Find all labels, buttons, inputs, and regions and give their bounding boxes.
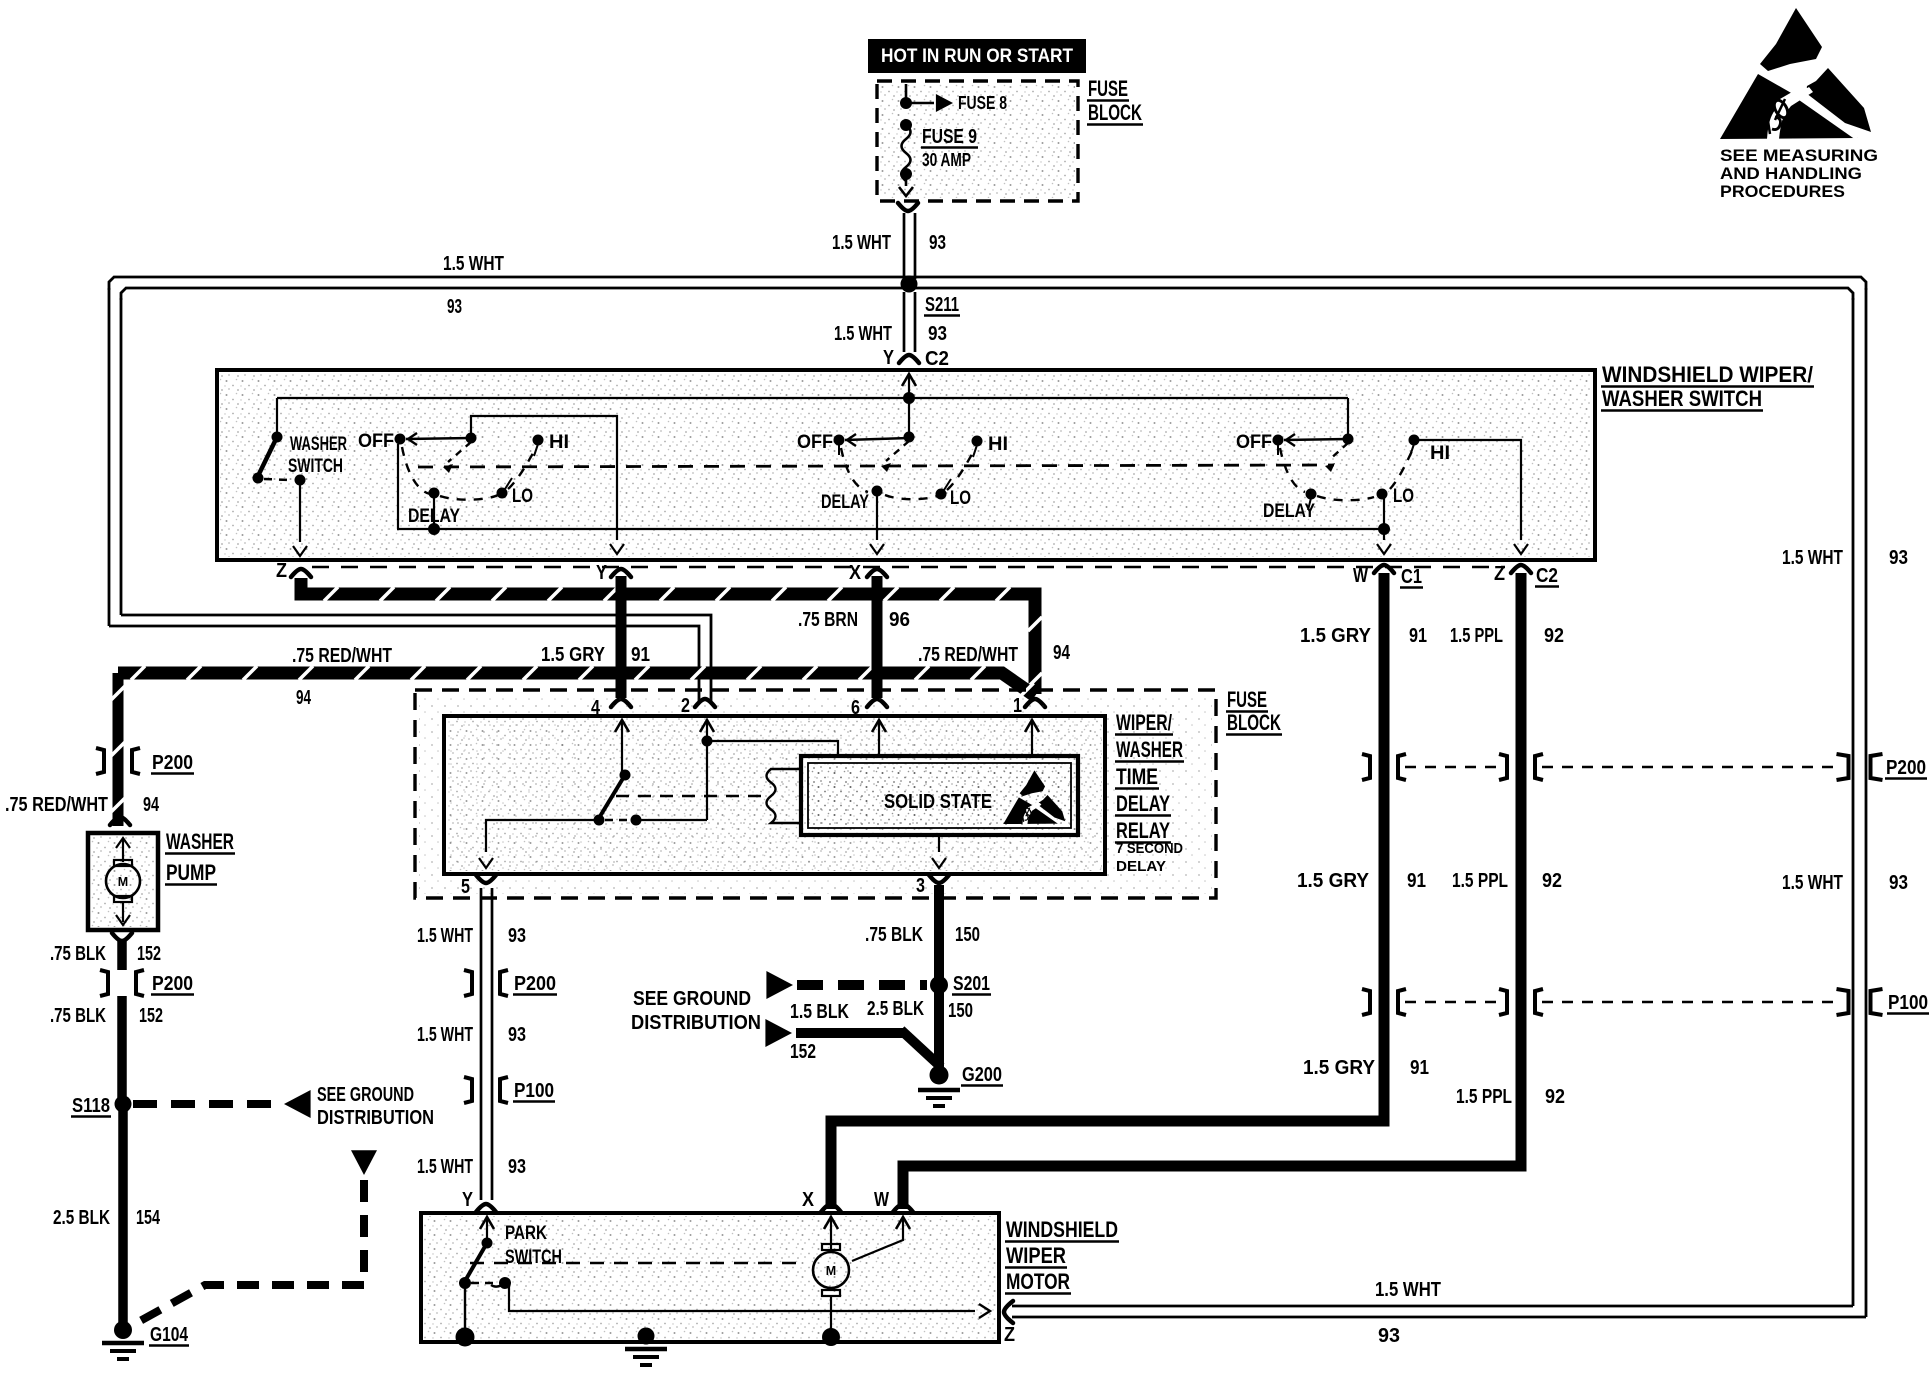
label Y (C2 pin)	[883, 347, 895, 369]
svg-text:2.5 BLK: 2.5 BLK	[53, 1207, 110, 1229]
label 93 (right upper)	[1889, 547, 1908, 569]
relay pin2 connector	[681, 695, 715, 717]
connector P200 row brackets frame	[1837, 754, 1883, 780]
label P100 (right)	[1887, 992, 1929, 1014]
svg-text:WASHER: WASHER	[166, 829, 234, 854]
svg-text:HI: HI	[549, 431, 569, 453]
connector P200 (p5)	[464, 970, 557, 996]
sw2 LO contact	[936, 479, 952, 500]
wire inside fuse block	[905, 84, 908, 100]
junction dot fuse8 tap	[900, 97, 912, 109]
sw3 arm dash	[1325, 443, 1348, 472]
wire X turn labels	[0, 0, 1, 1]
motor W internal wire	[852, 1217, 910, 1261]
svg-text:WIPER: WIPER	[1006, 1243, 1066, 1268]
solid state module box	[801, 756, 1078, 835]
svg-text:SWITCH: SWITCH	[288, 455, 343, 477]
sw3 LO wire to C1 pin	[1377, 498, 1391, 554]
label FUSE 9	[921, 126, 978, 148]
label 1.5 PPL (mid)	[1452, 870, 1508, 892]
park switch gang dash	[470, 1262, 806, 1265]
label 1.5 GRY (lower)	[1303, 1057, 1376, 1079]
sw2 DELAY contact	[872, 486, 883, 497]
connector P100 row brackets PPL	[1499, 989, 1543, 1015]
label 2.5 BLK (S201)	[867, 998, 924, 1020]
label DELAY (sw1)	[408, 505, 460, 527]
sw3 LO contact	[1377, 489, 1388, 500]
label LO (sw2)	[950, 487, 971, 509]
motor terminal Z connector	[1004, 1301, 1015, 1346]
svg-text:MOTOR: MOTOR	[1006, 1269, 1070, 1294]
label 91 (upper)	[1409, 625, 1427, 647]
park switch case junction dot	[456, 1328, 475, 1347]
motor armature	[813, 1217, 849, 1332]
splice S201	[930, 973, 991, 995]
label G104	[149, 1324, 189, 1346]
svg-text:3: 3	[916, 875, 925, 897]
splice S118	[71, 1095, 132, 1117]
label DELAY (sw2)	[821, 491, 869, 513]
wire 1.5 WHT frame top outer	[109, 277, 1866, 290]
washer pump outlet connector	[112, 933, 132, 941]
label HI (sw1)	[549, 431, 569, 453]
sw1 DELAY contact	[428, 488, 440, 536]
switch gang dashed link	[418, 465, 1334, 467]
connector P100 row brackets GRY	[1362, 989, 1406, 1015]
ground G200	[918, 1066, 960, 1107]
svg-text:P200: P200	[152, 752, 193, 774]
sw1 HI contact	[533, 435, 544, 457]
svg-text:94: 94	[296, 687, 312, 709]
relay pin3 connector	[916, 875, 949, 897]
svg-text:94: 94	[1053, 642, 1071, 664]
label DELAY (7s)	[1116, 859, 1166, 875]
solid state ESD logo	[1003, 770, 1065, 824]
svg-text:P100: P100	[1888, 992, 1928, 1014]
label 150 (p3)	[955, 924, 980, 946]
svg-text:DELAY: DELAY	[1116, 859, 1166, 875]
svg-text:M: M	[118, 875, 128, 889]
svg-text:DISTRIBUTION: DISTRIBUTION	[317, 1107, 434, 1129]
svg-text:.75 BLK: .75 BLK	[865, 924, 923, 946]
wire .75 BRN 96 X to pin 6	[872, 576, 883, 698]
svg-text:.75 BLK: .75 BLK	[50, 1005, 106, 1027]
svg-text:AND HANDLING: AND HANDLING	[1720, 164, 1862, 183]
sw1 route to Y pin	[471, 416, 624, 554]
label WASHER	[165, 829, 235, 854]
svg-text:G104: G104	[150, 1324, 189, 1346]
park switch contact curl	[491, 1283, 505, 1287]
label 93 (p5 a)	[508, 925, 526, 947]
label DISTRIBUTION (left)	[317, 1107, 434, 1129]
svg-text:G200: G200	[962, 1064, 1002, 1086]
label RELAY	[1115, 818, 1171, 843]
wire .75 RED/WHT branch to washer pump	[118, 666, 1035, 697]
svg-text:P200: P200	[152, 973, 193, 995]
motor terminal Y	[462, 1189, 496, 1212]
svg-text:FUSE 9: FUSE 9	[922, 126, 977, 148]
relay pin2 node dot	[702, 736, 713, 747]
wire 1.5 BLK 152 to G200	[765, 1019, 941, 1067]
ESD handling symbol	[1720, 8, 1871, 140]
splice S211	[901, 276, 918, 293]
label 152 (2)	[139, 1005, 163, 1027]
washer switch wire to Z	[293, 482, 307, 556]
label MOTOR	[1005, 1269, 1071, 1294]
label 94 (pin1)	[1053, 642, 1071, 664]
svg-text:150: 150	[955, 924, 980, 946]
label WINDSHIELD WIPER/	[1601, 362, 1814, 387]
sw2 pivot to OFF wire	[845, 434, 909, 446]
label 1.5 WHT (p5 b)	[417, 1024, 473, 1046]
svg-text:93: 93	[929, 232, 946, 254]
ground G104	[102, 1321, 144, 1359]
label DELAY (sw3)	[1263, 500, 1315, 522]
label 91 (lower)	[1410, 1057, 1429, 1079]
svg-text:RELAY: RELAY	[1116, 818, 1170, 843]
svg-text:W: W	[874, 1189, 889, 1211]
connector P100 row brackets frame	[1837, 989, 1883, 1015]
wire .75 BLK 152 upper	[117, 941, 127, 970]
svg-text:.75 RED/WHT: .75 RED/WHT	[5, 794, 108, 816]
svg-text:5: 5	[461, 876, 470, 898]
fuse block (dashed box)	[877, 81, 1078, 201]
wire dashed to ground distribution (S118)	[133, 1100, 278, 1108]
svg-text:DELAY: DELAY	[408, 505, 460, 527]
label WASHER SWITCH	[1601, 386, 1763, 411]
switch supply bus wire	[277, 397, 1348, 399]
sw3 LO junction dot	[1378, 523, 1390, 535]
label 1.5 WHT (top left)	[443, 253, 504, 275]
svg-text:C2: C2	[1536, 565, 1558, 587]
arrow to ground distribution (S201)	[766, 971, 793, 999]
label 152 (1)	[137, 943, 161, 965]
label SEE GROUND (mid)	[633, 987, 751, 1010]
connector P100 (p5)	[464, 1077, 555, 1103]
svg-text:Z: Z	[1004, 1324, 1015, 1346]
wire 1.5 GRY 91 Y to pin 4	[616, 576, 627, 698]
label LO (sw1)	[512, 485, 533, 507]
label 91 (pin4)	[631, 644, 650, 666]
label LO (sw3)	[1393, 485, 1414, 507]
washer switch contact dash	[264, 479, 290, 480]
svg-text:96: 96	[889, 609, 910, 631]
sw3 HI wire to C2 pin	[1418, 440, 1528, 554]
sw3 pivot to OFF wire	[1284, 434, 1348, 446]
label 93 (bottom)	[1378, 1325, 1400, 1347]
wire 1.5 WHT 93 fuse to S211	[904, 213, 915, 279]
svg-text:1.5 WHT: 1.5 WHT	[417, 1156, 473, 1178]
park switch entry arrow	[480, 1217, 494, 1240]
svg-text:TIME: TIME	[1116, 764, 1158, 789]
label .75 RED/WHT (pump)	[5, 794, 108, 816]
svg-text:C2: C2	[925, 348, 949, 370]
label .75 BRN	[798, 609, 858, 631]
wire .75 BLK 152 lower	[117, 996, 127, 1100]
label SWITCH (washer)	[288, 455, 343, 477]
sw2 DELAY wire to X pin	[870, 495, 884, 554]
svg-text:93: 93	[447, 296, 462, 318]
wire dashed to ground distribution (S201)	[797, 980, 927, 990]
label FUSE 8	[958, 92, 1007, 113]
svg-text:X: X	[802, 1189, 815, 1211]
svg-text:HOT IN RUN OR START: HOT IN RUN OR START	[881, 45, 1073, 67]
wire frame right side	[1853, 288, 1866, 1317]
svg-text:91: 91	[1409, 625, 1427, 647]
svg-text:WINDSHIELD WIPER/: WINDSHIELD WIPER/	[1602, 362, 1813, 387]
connector C2 glyph	[899, 355, 919, 363]
svg-text:.75 BRN: .75 BRN	[798, 609, 858, 631]
relay pin1 internal arrow	[1025, 720, 1039, 754]
svg-text:93: 93	[508, 925, 526, 947]
svg-text:1.5 GRY: 1.5 GRY	[1303, 1057, 1376, 1079]
relay route to pin 5	[479, 820, 599, 868]
svg-text:P100: P100	[514, 1080, 554, 1102]
svg-text:LO: LO	[950, 487, 971, 509]
svg-text:P200: P200	[514, 973, 556, 995]
svg-text:92: 92	[1542, 870, 1562, 892]
park switch contact dash	[471, 1277, 511, 1289]
terminal W C1 (switch)	[1353, 565, 1423, 588]
connector P200 row brackets PPL	[1499, 754, 1543, 780]
svg-text:OFF: OFF	[1236, 431, 1272, 453]
label 94 (pump)	[143, 794, 160, 816]
label .75 BLK (2)	[50, 1005, 106, 1027]
svg-text:1.5 PPL: 1.5 PPL	[1452, 870, 1508, 892]
wire 1.5 WHT S211 to C2	[904, 292, 915, 352]
connector P200 row brackets GRY	[1362, 754, 1406, 780]
bus junction dot	[903, 392, 915, 404]
svg-text:X: X	[849, 562, 862, 584]
svg-text:Y: Y	[883, 347, 895, 369]
washer switch arm	[253, 437, 278, 484]
svg-text:94: 94	[143, 794, 160, 816]
washer switch contact	[295, 475, 306, 486]
label 1.5 WHT (right upper)	[1782, 547, 1843, 569]
sw2 travel arc	[841, 448, 975, 499]
svg-text:S211: S211	[925, 294, 959, 316]
connector P200 row dashes	[1405, 766, 1838, 768]
wire 1.5 GRY 91 C1 to motor X	[831, 573, 1384, 1209]
windshield wiper motor box	[421, 1213, 999, 1342]
label C2	[924, 348, 950, 370]
washer pump feed riser	[111, 673, 125, 826]
svg-text:M: M	[826, 1264, 836, 1278]
svg-text:150: 150	[948, 1000, 973, 1022]
sw2 riser from bus	[908, 398, 910, 434]
svg-text:93: 93	[928, 323, 947, 345]
fuse 8 tap wire	[906, 94, 953, 112]
relay actuation dashed link	[616, 795, 762, 798]
label 1.5 WHT (p5 a)	[417, 925, 473, 947]
svg-text:BLOCK: BLOCK	[1227, 710, 1281, 735]
svg-text:Y: Y	[596, 562, 608, 584]
svg-text:93: 93	[1889, 872, 1908, 894]
svg-text:1.5 GRY: 1.5 GRY	[1300, 625, 1372, 647]
relay contact pivot	[620, 770, 631, 781]
svg-text:93: 93	[508, 1156, 526, 1178]
label .75 BLK (p3)	[865, 924, 923, 946]
label 93 (fuse-S211)	[929, 232, 946, 254]
park switch wire to Z	[509, 1283, 990, 1318]
sw1 travel arc	[402, 447, 536, 500]
wire frame left side	[109, 288, 121, 626]
label WASHER	[290, 433, 347, 455]
wire 1.5 WHT frame top inner	[121, 288, 1853, 300]
sw2 OFF contact	[834, 435, 845, 456]
sw1 LO contact	[497, 478, 513, 499]
label 30 AMP	[922, 149, 971, 170]
svg-text:2.5 BLK: 2.5 BLK	[867, 998, 924, 1020]
svg-text:SEE MEASURING: SEE MEASURING	[1720, 146, 1878, 165]
fuse block dashed box (relay)	[415, 690, 1216, 898]
label 93 (p5 b)	[508, 1024, 526, 1046]
svg-text:1.5 WHT: 1.5 WHT	[832, 232, 891, 254]
svg-text:PROCEDURES: PROCEDURES	[1720, 182, 1845, 201]
label 7 SECOND	[1116, 841, 1183, 857]
svg-text:1.5 BLK: 1.5 BLK	[790, 1001, 849, 1023]
label SEE GROUND (left)	[317, 1084, 414, 1106]
label SWITCH (park)	[505, 1246, 562, 1268]
wire 1.5 WHT 93 pin5 to motor Y	[481, 888, 492, 1200]
power feed banner HOT IN RUN OR START	[868, 39, 1086, 73]
label 154	[136, 1207, 161, 1229]
svg-text:DELAY: DELAY	[1263, 500, 1315, 522]
terminal Z C2 (switch)	[1494, 563, 1559, 587]
svg-text:WASHER: WASHER	[1116, 737, 1183, 762]
svg-text:1.5 WHT: 1.5 WHT	[1375, 1279, 1441, 1301]
motor terminal W	[874, 1189, 913, 1212]
label 1.5 BLK	[790, 1001, 849, 1023]
svg-text:WINDSHIELD: WINDSHIELD	[1006, 1217, 1118, 1242]
svg-text:OFF: OFF	[797, 431, 833, 453]
svg-text:SEE GROUND: SEE GROUND	[317, 1084, 414, 1106]
terminal Y (switch)	[596, 562, 631, 584]
svg-text:DELAY: DELAY	[1116, 791, 1170, 816]
windshield wiper/washer switch box	[217, 370, 1595, 560]
svg-text:FUSE 8: FUSE 8	[958, 92, 1007, 113]
label S211	[924, 294, 960, 316]
svg-text:SOLID STATE: SOLID STATE	[884, 790, 992, 813]
relay pin6 internal arrow	[872, 720, 886, 754]
svg-text:P200: P200	[1886, 757, 1926, 779]
relay contact arm	[594, 775, 626, 826]
svg-text:91: 91	[631, 644, 650, 666]
connector face dashed line	[312, 566, 1505, 569]
svg-text:1.5 PPL: 1.5 PPL	[1450, 625, 1503, 647]
sw3 OFF contact	[1273, 435, 1284, 456]
sw1 arm dash	[443, 442, 471, 473]
relay contact to pin2 node	[640, 741, 707, 820]
svg-text:93: 93	[508, 1024, 526, 1046]
washer pump inlet connector	[110, 817, 130, 825]
washer switch pivot	[272, 398, 283, 443]
label 1.5 GRY (pin4)	[541, 644, 606, 666]
label DELAY (relay)	[1115, 791, 1171, 816]
wire frame lower-left run to relay pin 2	[109, 615, 711, 704]
label 1.5 WHT (S211-C2)	[834, 323, 892, 345]
svg-text:7 SECOND: 7 SECOND	[1116, 841, 1183, 857]
label 93 (top left)	[447, 296, 462, 318]
svg-text:SEE GROUND: SEE GROUND	[633, 987, 751, 1010]
svg-text:152: 152	[790, 1041, 816, 1063]
svg-text:1.5 WHT: 1.5 WHT	[834, 323, 892, 345]
svg-text:.75 BLK: .75 BLK	[50, 943, 106, 965]
ground distribution dashed branch	[131, 1150, 377, 1326]
label PUMP	[165, 860, 217, 885]
sw3 HI contact	[1409, 435, 1420, 457]
label 1.5 WHT (p5 c)	[417, 1156, 473, 1178]
svg-text:LO: LO	[1393, 485, 1414, 507]
label 93 (right mid)	[1889, 872, 1908, 894]
relay pin2 internal arrow	[700, 720, 714, 738]
delay common wire	[397, 528, 1384, 530]
svg-text:1.5 PPL: 1.5 PPL	[1456, 1086, 1512, 1108]
label WIPER/	[1115, 710, 1173, 735]
connector P100 row dashes	[1405, 1001, 1838, 1003]
label PARK	[505, 1222, 547, 1244]
label 150 (S201)	[948, 1000, 973, 1022]
svg-text:1.5 WHT: 1.5 WHT	[1782, 872, 1843, 894]
svg-text:SWITCH: SWITCH	[505, 1246, 562, 1268]
sw3 DELAY contact	[1306, 489, 1317, 511]
label FUSE (relay)	[1226, 687, 1268, 712]
svg-text:WIPER/: WIPER/	[1116, 710, 1172, 735]
label 1.5 WHT (fuse-S211)	[832, 232, 891, 254]
motor case junction dot	[822, 1328, 840, 1346]
svg-text:1.5 GRY: 1.5 GRY	[541, 644, 606, 666]
svg-text:92: 92	[1544, 625, 1564, 647]
label 94 (left)	[296, 687, 312, 709]
sw2 pivot	[904, 432, 915, 443]
svg-text:.75 RED/WHT: .75 RED/WHT	[292, 645, 392, 667]
label 93 (p5 c)	[508, 1156, 526, 1178]
relay pin5 connector	[461, 875, 496, 898]
label 93 (S211-C2)	[928, 323, 947, 345]
label 92 (upper)	[1544, 625, 1564, 647]
label BLOCK (relay)	[1226, 710, 1282, 735]
label 1.5 PPL (upper)	[1450, 625, 1503, 647]
svg-text:HI: HI	[988, 433, 1008, 455]
label FUSE (top)	[1087, 76, 1129, 101]
wire 2.5 BLK 154	[118, 1108, 128, 1330]
svg-text:S201: S201	[953, 973, 990, 995]
label WINDSHIELD	[1005, 1217, 1119, 1242]
svg-text:93: 93	[1378, 1325, 1400, 1347]
svg-text:152: 152	[139, 1005, 163, 1027]
label 1.5 WHT (right mid)	[1782, 872, 1843, 894]
svg-text:1.5 WHT: 1.5 WHT	[1782, 547, 1843, 569]
label 1.5 GRY (upper)	[1300, 625, 1372, 647]
svg-text:154: 154	[136, 1207, 161, 1229]
connector at fuse block output	[898, 203, 918, 211]
relay coil	[767, 769, 802, 823]
park switch arm to case	[464, 1283, 466, 1332]
svg-text:C1: C1	[1401, 566, 1422, 588]
label 152 (blk)	[790, 1041, 816, 1063]
label OFF (sw3)	[1236, 431, 1272, 453]
svg-text:91: 91	[1407, 870, 1426, 892]
motor internal ground	[625, 1328, 667, 1366]
svg-text:1.5 WHT: 1.5 WHT	[417, 1024, 473, 1046]
relay pin4 internal arrow	[615, 720, 629, 771]
sw1 OFF contact	[395, 434, 406, 530]
svg-text:1.5 WHT: 1.5 WHT	[443, 253, 504, 275]
svg-text:OFF: OFF	[358, 430, 394, 452]
relay pin4 connector	[591, 697, 631, 719]
label DISTRIBUTION (mid)	[631, 1011, 761, 1034]
wire .75 RED/WHT from Z to relay pin 1	[301, 578, 1042, 694]
